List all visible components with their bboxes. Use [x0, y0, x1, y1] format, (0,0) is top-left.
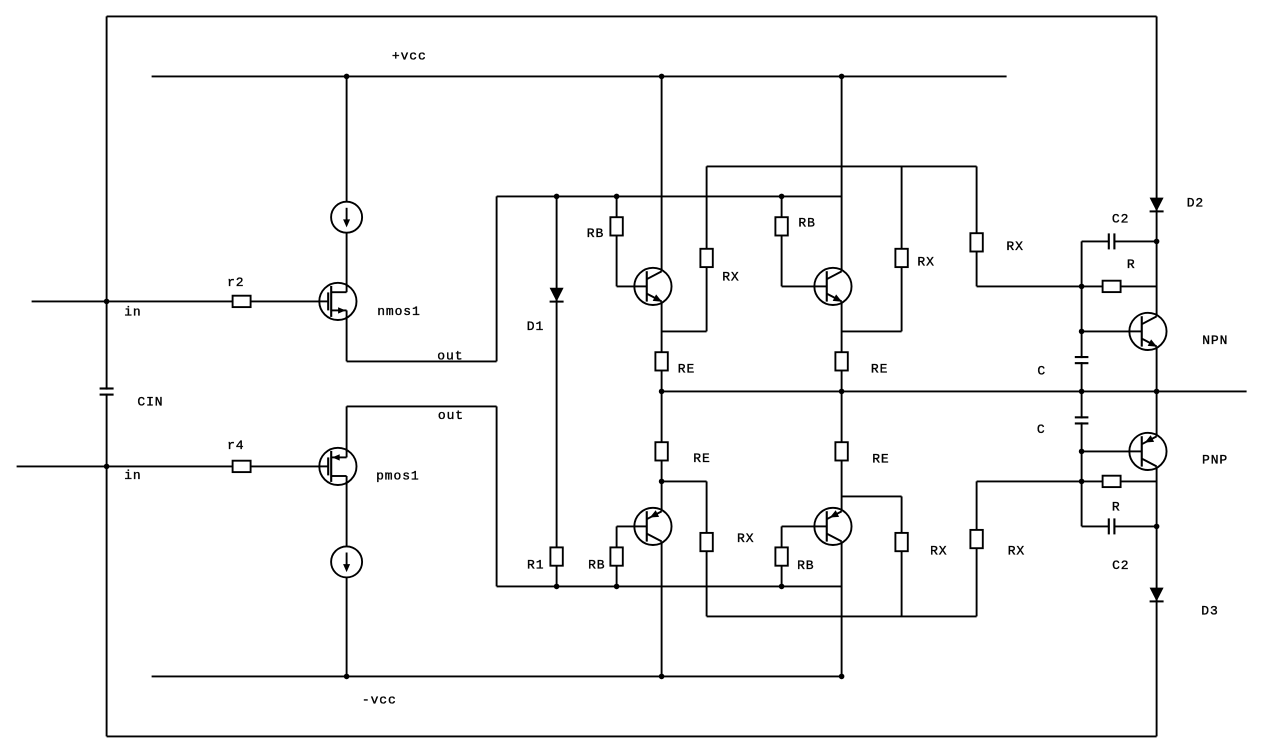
- svg-text:-vcc: -vcc: [362, 693, 397, 708]
- wire RB4 column: [781, 526, 783, 586]
- junction PNP base: [1079, 449, 1085, 455]
- wire in top: [32, 300, 329, 302]
- svg-text:r2: r2: [227, 275, 244, 290]
- diode D3: [1150, 588, 1164, 602]
- wire Q3 collector-emitter column: [661, 391, 663, 676]
- wire Q1 collector-emitter column: [661, 76, 663, 391]
- transistor PNP output: [1128, 433, 1166, 470]
- junction node196-RB2: [779, 194, 785, 200]
- svg-text:R1: R1: [527, 557, 544, 572]
- wire R upper wire: [977, 285, 1157, 287]
- svg-text:+vcc: +vcc: [392, 48, 427, 63]
- wire -vcc rail: [152, 675, 842, 677]
- current source I1: [331, 202, 362, 233]
- transistor NPN output: [1128, 313, 1166, 350]
- pmos transistor pmos1: [318, 448, 356, 485]
- svg-text:D1: D1: [527, 319, 544, 334]
- junction in bottom: [104, 464, 110, 470]
- wire +vcc rail: [152, 75, 1007, 77]
- resistor RE1: [655, 352, 667, 370]
- junction vcc-Q2: [839, 74, 845, 80]
- wire C2 lower wire: [1082, 525, 1157, 527]
- junction node586-R1: [554, 584, 560, 590]
- wire right mid column: [1081, 241, 1083, 526]
- resistor RB1: [610, 217, 622, 235]
- svg-text:RX: RX: [930, 544, 947, 559]
- wire lower wire y615: [707, 615, 977, 617]
- resistor RB3: [610, 547, 622, 565]
- capacitor CIN: [98, 389, 115, 395]
- wire RX5 top wire: [842, 495, 902, 497]
- wire Q4 base wire: [782, 525, 827, 527]
- svg-text:R: R: [1127, 257, 1136, 272]
- svg-text:RB: RB: [587, 226, 604, 241]
- svg-text:RB: RB: [798, 215, 815, 230]
- resistor RE3: [655, 442, 667, 460]
- capacitor C2 upper: [1109, 232, 1115, 251]
- svg-text:R: R: [1112, 499, 1121, 514]
- wire out top vertical: [496, 196, 498, 361]
- svg-text:out: out: [437, 348, 463, 363]
- svg-text:C2: C2: [1112, 558, 1129, 573]
- wire D1-R1 column: [556, 196, 558, 586]
- resistor r4: [233, 461, 251, 472]
- current source I2: [331, 546, 362, 577]
- junction RE3-RX4: [659, 479, 665, 485]
- svg-text:C: C: [1037, 422, 1046, 437]
- resistor RE2: [835, 352, 847, 370]
- resistor RX6: [970, 530, 982, 548]
- wire upper node wire y196: [497, 195, 842, 197]
- wire RX2 bottom wire: [842, 330, 902, 332]
- svg-text:pmos1: pmos1: [376, 468, 420, 483]
- svg-text:RE: RE: [693, 451, 710, 466]
- svg-text:C: C: [1037, 364, 1046, 379]
- svg-text:nmos1: nmos1: [377, 304, 421, 319]
- junction C2-top: [1154, 239, 1160, 245]
- junction rail-C: [1079, 389, 1085, 395]
- svg-text:NPN: NPN: [1202, 333, 1228, 348]
- wire RX3 column: [976, 166, 978, 286]
- junction R-low: [1079, 479, 1085, 485]
- svg-text:in: in: [124, 468, 141, 483]
- resistor RB4: [775, 547, 787, 565]
- svg-text:in: in: [124, 304, 141, 319]
- junction nvcc-Q3: [659, 674, 665, 680]
- wire RB2 top column: [781, 196, 783, 286]
- resistor RX3: [970, 233, 982, 251]
- wire RX4 column: [706, 481, 708, 616]
- svg-text:PNP: PNP: [1202, 452, 1228, 467]
- wire R lower wire: [977, 480, 1157, 482]
- wire in bottom: [17, 465, 329, 467]
- transistor Q2: [813, 268, 851, 305]
- svg-text:RE: RE: [872, 452, 889, 467]
- junction node196-RB1: [614, 194, 620, 200]
- wire right border / output column: [1156, 16, 1158, 736]
- junction node586-RB3: [614, 584, 620, 590]
- junction nvcc-Q4: [839, 674, 845, 680]
- junction vcc-I1: [344, 74, 350, 80]
- wire output rail: [662, 390, 1247, 392]
- wire pmos column: [346, 406, 348, 676]
- svg-text:RX: RX: [917, 255, 934, 270]
- wire RB1 top column: [616, 196, 618, 286]
- resistor RX1: [700, 249, 712, 267]
- junction nvcc-I2: [344, 674, 350, 680]
- svg-text:out: out: [438, 408, 464, 423]
- capacitor C2 lower: [1109, 517, 1115, 536]
- svg-text:D2: D2: [1187, 195, 1204, 210]
- junction in top: [104, 299, 110, 305]
- wire RX2 column: [901, 166, 903, 331]
- wire bottom border: [107, 735, 1157, 737]
- wire PNP base wire: [1082, 450, 1142, 452]
- svg-text:RX: RX: [1008, 544, 1025, 559]
- junction C2-low: [1154, 524, 1160, 530]
- nmos transistor nmos1: [318, 283, 356, 320]
- wire RX1 column: [706, 166, 708, 331]
- transistor Q4: [813, 508, 851, 545]
- svg-text:RB: RB: [588, 558, 605, 573]
- svg-text:RE: RE: [678, 362, 695, 377]
- resistor r2: [233, 296, 251, 307]
- resistor RX5: [895, 533, 907, 551]
- svg-text:RE: RE: [871, 362, 888, 377]
- resistor RB2: [775, 217, 787, 235]
- resistor R upper: [1103, 281, 1121, 292]
- diode D2: [1150, 198, 1164, 212]
- svg-text:RX: RX: [737, 531, 754, 546]
- junction node196-D1: [554, 194, 560, 200]
- svg-text:RX: RX: [722, 270, 739, 285]
- wire RB3 column: [616, 526, 618, 586]
- resistor R lower: [1103, 476, 1121, 487]
- resistor RX2: [895, 249, 907, 267]
- junction node586-RB4: [779, 584, 785, 590]
- wire out bottom horizontal: [347, 405, 497, 407]
- wire out bottom vertical: [496, 406, 498, 586]
- wire Q3 base wire: [617, 525, 647, 527]
- wire lower node wire y586: [497, 585, 842, 587]
- transistor Q1: [633, 268, 671, 305]
- junction vcc-Q1: [659, 74, 665, 80]
- wire left border: [106, 16, 108, 736]
- svg-text:CIN: CIN: [137, 395, 163, 410]
- capacitor C upper: [1073, 357, 1090, 363]
- capacitor C lower: [1073, 417, 1090, 423]
- wire Q2 collector-emitter column: [841, 76, 843, 391]
- junction rail-out: [1154, 389, 1160, 395]
- wire Q4 collector-emitter column: [841, 391, 843, 676]
- wire upper wire y166: [707, 165, 977, 167]
- junction rail-Q1: [659, 389, 665, 395]
- wire top border: [107, 15, 1157, 17]
- resistor RE4: [835, 442, 847, 460]
- transistor Q3: [633, 508, 671, 545]
- junction R-top: [1079, 284, 1085, 290]
- diode D1: [550, 288, 564, 302]
- junction NPN base: [1079, 329, 1085, 335]
- wire RX6 column: [976, 481, 978, 616]
- wire RX4 top wire: [662, 480, 707, 482]
- wire RX5 column: [901, 496, 903, 616]
- junction rail-Q2: [839, 389, 845, 395]
- svg-text:C2: C2: [1112, 212, 1129, 227]
- resistor RX4: [700, 533, 712, 551]
- resistor R1: [550, 547, 562, 565]
- svg-text:RB: RB: [797, 558, 814, 573]
- svg-text:RX: RX: [1006, 239, 1023, 254]
- svg-text:r4: r4: [227, 438, 244, 453]
- wire out top horizontal: [347, 360, 497, 362]
- wire C2 upper wire: [1082, 240, 1157, 242]
- wire NPN base wire: [1082, 330, 1142, 332]
- wire RX1 bottom wire: [662, 330, 707, 332]
- wire Q2 base wire: [782, 285, 827, 287]
- wire nmos column: [346, 76, 348, 361]
- svg-text:D3: D3: [1201, 603, 1218, 618]
- wire Q1 base wire: [617, 285, 647, 287]
